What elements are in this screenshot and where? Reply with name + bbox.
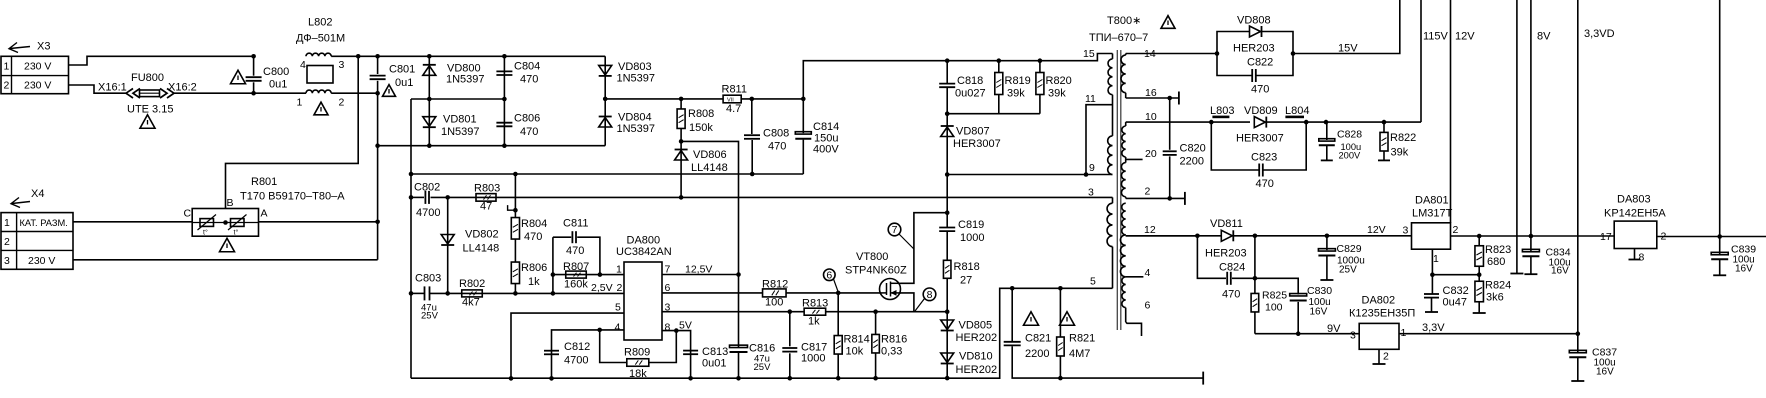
wire X3.2 to fuse bbox=[69, 85, 127, 93]
svg-text:0u01: 0u01 bbox=[702, 358, 726, 370]
svg-text:200V: 200V bbox=[1339, 151, 1362, 161]
capacitor C812 4700 oscillator bbox=[544, 350, 559, 352]
svg-text:C803: C803 bbox=[415, 273, 441, 285]
svg-text:2: 2 bbox=[1145, 186, 1151, 198]
svg-text:680: 680 bbox=[1487, 256, 1505, 268]
svg-text:VD809: VD809 bbox=[1244, 105, 1278, 117]
capacitor C828 100u 200V bbox=[1324, 120, 1329, 125]
svg-text:C820: C820 bbox=[1180, 143, 1206, 155]
svg-text:A: A bbox=[261, 208, 268, 220]
svg-text:470: 470 bbox=[768, 141, 786, 153]
svg-text:C830: C830 bbox=[1307, 285, 1332, 297]
svg-text:ТПИ–670–7: ТПИ–670–7 bbox=[1089, 32, 1148, 44]
wire X4.1 to thermistor C bbox=[73, 221, 192, 223]
wire DA802 pin2 ground bbox=[1378, 349, 1380, 364]
svg-text:3: 3 bbox=[4, 255, 10, 267]
svg-text:R801: R801 bbox=[251, 176, 277, 188]
transformer secondary winding pins 10-20-2 bbox=[1125, 122, 1127, 126]
resistor R821 4M7 bleeder bbox=[1058, 286, 1063, 291]
wire 3,3VD rail vertical bbox=[1577, 0, 1579, 334]
svg-text:X16:1: X16:1 bbox=[98, 82, 127, 94]
capacitor C811 470 parallel loop bbox=[553, 236, 571, 238]
svg-text:UC3842AN: UC3842AN bbox=[616, 246, 672, 258]
svg-text:R814: R814 bbox=[844, 334, 870, 346]
resistor R811 4.7 (fusible, in series) bbox=[723, 95, 741, 103]
wire VCC feed from R808 node to C816 column bbox=[681, 141, 738, 274]
svg-text:39k: 39k bbox=[1391, 147, 1409, 159]
capacitor C816 47u 25V VCC filter bbox=[738, 275, 740, 348]
wire 12V rail top vertical bbox=[1450, 0, 1452, 223]
svg-text:VD808: VD808 bbox=[1237, 15, 1271, 27]
svg-text:47: 47 bbox=[480, 201, 492, 213]
diode VD806 LL4148 aux rectifier bbox=[680, 141, 682, 197]
svg-text:C832: C832 bbox=[1443, 285, 1469, 297]
wire 15V output bbox=[1293, 0, 1400, 54]
svg-text:VD803: VD803 bbox=[618, 61, 652, 73]
label circled 6 gate node bbox=[824, 269, 836, 281]
svg-text:C828: C828 bbox=[1337, 129, 1362, 141]
svg-text:C806: C806 bbox=[514, 113, 540, 125]
capacitor C813 0u01 Vref bypass bbox=[683, 350, 698, 352]
capacitor C839 100u 16V bbox=[1719, 237, 1721, 255]
transformer pin 20 stub bbox=[1126, 158, 1143, 160]
svg-text:C811: C811 bbox=[563, 218, 588, 230]
resistor R804 470 bbox=[514, 174, 516, 218]
svg-text:К1235ЕН35П: К1235ЕН35П bbox=[1349, 308, 1415, 320]
capacitor C803 47u 25V in series (electrolytic) bbox=[424, 286, 426, 300]
diode VD804 1N5397 bbox=[604, 99, 606, 146]
svg-text:100: 100 bbox=[1265, 302, 1283, 314]
svg-text:C813: C813 bbox=[702, 346, 728, 358]
wire clamp node line bbox=[947, 113, 1040, 115]
svg-text:VD804: VD804 bbox=[618, 112, 652, 124]
wire primary ground bottom rail bbox=[411, 288, 1113, 378]
connector X4 table bbox=[1, 213, 73, 270]
svg-text:VD805: VD805 bbox=[959, 320, 993, 332]
resistor R806 1k bbox=[511, 262, 519, 284]
snubber box C823 with HER3007 label bbox=[1209, 120, 1214, 125]
svg-text:470: 470 bbox=[520, 126, 538, 138]
svg-text:470: 470 bbox=[566, 245, 584, 257]
capacitor C806 470 bbox=[503, 99, 505, 146]
resistor R812 100 gate bbox=[763, 289, 787, 297]
svg-text:C821: C821 bbox=[1025, 333, 1051, 345]
svg-text:1: 1 bbox=[4, 61, 10, 73]
capacitor C821 2200 Y-cap between grounds bbox=[1010, 286, 1015, 291]
wire source line left to R816 node bbox=[876, 311, 914, 313]
wire 8V rail vertical with ground tick bbox=[1516, 0, 1518, 274]
svg-text:4: 4 bbox=[1145, 267, 1151, 279]
resistor R825 100 dropper bbox=[1253, 276, 1258, 281]
svg-text:C829: C829 bbox=[1337, 243, 1362, 255]
svg-text:1N5397: 1N5397 bbox=[446, 74, 485, 86]
svg-text:27: 27 bbox=[960, 275, 972, 287]
svg-text:39k: 39k bbox=[1048, 88, 1066, 100]
svg-text:9V: 9V bbox=[1327, 323, 1341, 335]
svg-text:470: 470 bbox=[520, 74, 538, 86]
svg-text:T800∗: T800∗ bbox=[1107, 15, 1141, 27]
svg-text:3: 3 bbox=[1088, 187, 1094, 199]
wire 115V rail to top bbox=[1420, 0, 1422, 122]
capacitor C834 100u 16V on 12V rail bbox=[1530, 0, 1532, 236]
svg-text:VD802: VD802 bbox=[465, 229, 499, 241]
svg-text:230 V: 230 V bbox=[24, 80, 51, 92]
wire DA800 pin8 Vref bbox=[662, 331, 691, 379]
svg-text:2: 2 bbox=[4, 80, 10, 92]
svg-text:16V: 16V bbox=[1551, 266, 1569, 277]
svg-text:DA801: DA801 bbox=[1415, 195, 1449, 207]
svg-text:R806: R806 bbox=[521, 262, 547, 274]
svg-text:HER202: HER202 bbox=[956, 332, 998, 344]
inductor L803 (bead) bbox=[1212, 116, 1229, 119]
svg-text:1000: 1000 bbox=[960, 232, 984, 244]
transformer pin 16 wire to ground tick bbox=[1126, 97, 1179, 99]
svg-text:0,33: 0,33 bbox=[881, 346, 902, 358]
svg-text:VD807: VD807 bbox=[956, 126, 990, 138]
svg-text:FU800: FU800 bbox=[131, 72, 164, 84]
svg-text:HER3007: HER3007 bbox=[1236, 133, 1284, 145]
diode VD800 1N5397 bbox=[428, 56, 430, 99]
svg-text:HER202: HER202 bbox=[956, 364, 998, 376]
svg-text:VD811: VD811 bbox=[1210, 218, 1243, 230]
resistor R819 39k clamp bbox=[998, 61, 1000, 73]
svg-text:15: 15 bbox=[1083, 48, 1095, 60]
svg-text:LL4148: LL4148 bbox=[463, 243, 500, 255]
resistor R818 27 snubber bbox=[943, 260, 951, 278]
svg-text:2: 2 bbox=[339, 97, 345, 109]
svg-text:C801: C801 bbox=[389, 64, 415, 76]
svg-text:X3: X3 bbox=[37, 41, 50, 53]
capacitor C820 2200 secondary common bbox=[1169, 98, 1171, 150]
svg-text:230 V: 230 V bbox=[28, 255, 55, 267]
svg-text:R824: R824 bbox=[1485, 280, 1511, 292]
transformer aux winding pins 3-5 bbox=[1112, 197, 1114, 203]
label circled 8 source node bbox=[923, 288, 936, 301]
svg-text:3: 3 bbox=[339, 59, 345, 71]
svg-text:0u027: 0u027 bbox=[955, 88, 986, 100]
svg-text:1: 1 bbox=[297, 97, 303, 109]
svg-text:R813: R813 bbox=[802, 298, 828, 310]
transformer primary winding pins 15-11-9 bbox=[1112, 54, 1114, 59]
resistor R822 39k bleeder bbox=[1382, 120, 1387, 125]
svg-text:L804: L804 bbox=[1285, 105, 1309, 117]
wire DA800 pin5 ground bbox=[511, 313, 624, 378]
inductor L804 (bead) bbox=[1285, 116, 1304, 119]
capacitor C832 0u47 bbox=[1431, 275, 1433, 294]
transformer pin 12 wire bbox=[1126, 235, 1198, 237]
svg-text:9: 9 bbox=[1089, 162, 1095, 174]
wire hot-ground vertical x=411 bbox=[410, 99, 412, 378]
capacitor C817 1000 CS filter bbox=[788, 309, 793, 314]
svg-text:DA803: DA803 bbox=[1617, 194, 1651, 206]
capacitor C802 4700 in series bbox=[424, 191, 426, 204]
wire DA801 pin1 adjust bbox=[1431, 249, 1433, 275]
svg-text:R803: R803 bbox=[474, 183, 500, 195]
resistor R808 150k startup bbox=[680, 99, 682, 109]
svg-text:VD806: VD806 bbox=[693, 149, 727, 161]
svg-text:470: 470 bbox=[1222, 288, 1240, 300]
warning triangle below C801 label bbox=[383, 85, 396, 97]
svg-text:12: 12 bbox=[1144, 224, 1156, 236]
svg-text:1N5397: 1N5397 bbox=[441, 126, 480, 138]
wire DA800 pin6 gate drive line bbox=[662, 292, 763, 294]
warning triangle below L802 bbox=[314, 102, 328, 115]
svg-text:C814: C814 bbox=[813, 121, 839, 133]
svg-text:10: 10 bbox=[1145, 111, 1157, 123]
svg-text:4700: 4700 bbox=[564, 355, 588, 367]
capacitor C800 0u1 across AC lines bbox=[253, 56, 255, 75]
svg-text:VD801: VD801 bbox=[443, 114, 477, 126]
capacitor C818 0u027 clamp bbox=[946, 61, 948, 84]
warning triangle below fuse bbox=[140, 115, 155, 129]
svg-text:C822: C822 bbox=[1247, 56, 1273, 68]
warning triangle below R801 bbox=[220, 238, 235, 252]
wire far-right rail vertical bbox=[1719, 0, 1721, 237]
svg-text:470: 470 bbox=[1251, 84, 1269, 96]
svg-text:4: 4 bbox=[615, 322, 621, 334]
svg-text:3,3V: 3,3V bbox=[1422, 322, 1445, 334]
resistor R802 4k7 bbox=[462, 290, 483, 297]
svg-text:R819: R819 bbox=[1005, 75, 1031, 87]
svg-text:3: 3 bbox=[1350, 330, 1356, 342]
wire staircase drain to VT800 bbox=[901, 213, 947, 284]
wire DA800 pin4 to C812 bbox=[552, 330, 625, 379]
svg-text:R809: R809 bbox=[624, 347, 650, 359]
svg-text:16: 16 bbox=[1145, 87, 1157, 99]
diode VD802 LL4148 bbox=[445, 195, 450, 200]
diode VD811 HER203 12V rectifier bbox=[1126, 235, 1222, 237]
svg-text:15V: 15V bbox=[1338, 43, 1358, 55]
svg-text:17: 17 bbox=[1600, 231, 1612, 243]
svg-text:R808: R808 bbox=[688, 108, 714, 120]
node VCC-feed junction under R808 bbox=[679, 139, 684, 144]
svg-text:VD810: VD810 bbox=[959, 351, 993, 363]
svg-text:1N5397: 1N5397 bbox=[617, 73, 656, 85]
svg-text:25V: 25V bbox=[754, 362, 772, 373]
svg-text:230 V: 230 V bbox=[24, 61, 51, 73]
svg-text:C812: C812 bbox=[564, 341, 590, 353]
svg-text:2: 2 bbox=[1383, 351, 1389, 363]
svg-text:470: 470 bbox=[1256, 178, 1274, 190]
svg-text:7: 7 bbox=[892, 224, 898, 236]
wire X3.1 to AC line N (top) bbox=[69, 56, 254, 65]
svg-text:C824: C824 bbox=[1219, 262, 1245, 274]
svg-text:B: B bbox=[227, 197, 234, 209]
transformer pin 2 wire to ground tick bbox=[1126, 197, 1185, 199]
warning triangle left of C800 bbox=[231, 70, 246, 84]
capacitor C804 470 bbox=[503, 56, 505, 99]
resistor R803 47 in series bbox=[476, 194, 496, 202]
resistor R820 39k clamp bbox=[1039, 61, 1041, 73]
svg-text:400V: 400V bbox=[813, 144, 839, 156]
label circled 7 drain node bbox=[888, 223, 901, 236]
svg-text:R811: R811 bbox=[722, 84, 747, 96]
svg-text:1: 1 bbox=[1433, 253, 1439, 265]
svg-text:8: 8 bbox=[665, 322, 671, 334]
wire VT800 source to source node bbox=[899, 293, 947, 312]
svg-text:0u47: 0u47 bbox=[1443, 297, 1467, 309]
svg-text:6: 6 bbox=[826, 270, 832, 282]
capacitor C830 100u 16V bbox=[1255, 278, 1298, 294]
svg-text:R823: R823 bbox=[1485, 244, 1511, 256]
transformer pin 6 stub bbox=[1126, 322, 1142, 336]
diode VD809 HER3007 115V rectifier bbox=[1212, 121, 1250, 123]
svg-text:R818: R818 bbox=[954, 261, 980, 273]
resistor R809 18k pin4 to pin8 loop bbox=[600, 330, 627, 363]
svg-text:КАТ. РАЗМ.: КАТ. РАЗМ. bbox=[20, 218, 68, 228]
svg-text:STP4NK60Z: STP4NK60Z bbox=[845, 265, 907, 277]
svg-text:X4: X4 bbox=[31, 188, 44, 200]
svg-text:UTE 3.15: UTE 3.15 bbox=[127, 104, 173, 116]
wire bridge lower rail (AC-L) bbox=[378, 145, 606, 147]
resistor R813 1k CS bbox=[804, 308, 826, 315]
svg-text:5: 5 bbox=[615, 302, 621, 314]
svg-text:R821: R821 bbox=[1069, 333, 1095, 345]
svg-text:T170 B59170–T80–A: T170 B59170–T80–A bbox=[240, 191, 345, 203]
svg-text:1: 1 bbox=[4, 217, 10, 229]
svg-text:115V: 115V bbox=[1423, 31, 1449, 43]
capacitor C829 1000u 25V 12V filter bbox=[1325, 234, 1330, 239]
svg-text:HER3007: HER3007 bbox=[953, 138, 1001, 150]
stub jog near R804 top bbox=[508, 205, 516, 210]
svg-text:HER203: HER203 bbox=[1233, 43, 1275, 55]
svg-text:C819: C819 bbox=[958, 219, 984, 231]
resistor R823 680 divider bbox=[1478, 236, 1480, 246]
wire X4.3 to AC-L vertical bbox=[73, 259, 378, 261]
wire DA800 pin7 VCC to C816 column bbox=[662, 274, 739, 276]
wire L802 pin2 to C801 node (bottom AC) bbox=[331, 92, 377, 94]
wire B-electrode net: top AC line down to thermistor B bbox=[226, 56, 359, 208]
svg-text:1: 1 bbox=[616, 264, 622, 276]
svg-text:HER203: HER203 bbox=[1205, 248, 1247, 260]
svg-text:2: 2 bbox=[4, 236, 10, 248]
wire DA803 pin8 ground bbox=[1634, 249, 1636, 260]
svg-text:100: 100 bbox=[765, 297, 783, 309]
svg-text:3,3VD: 3,3VD bbox=[1584, 28, 1615, 40]
transformer secondary winding pins 12-4-6 bbox=[1125, 202, 1127, 204]
svg-text:t°: t° bbox=[203, 229, 208, 237]
transformer pin 10 wire bbox=[1126, 121, 1212, 123]
diode VD803 1N5397 bbox=[604, 56, 606, 99]
warning triangle above C821 bbox=[1024, 312, 1039, 326]
svg-text:t°: t° bbox=[234, 229, 239, 237]
svg-text:2200: 2200 bbox=[1180, 156, 1204, 168]
wire DA801 pin2 output line bbox=[1451, 235, 1615, 237]
svg-text:DA802: DA802 bbox=[1362, 295, 1396, 307]
wire secondary ground line with end tick bbox=[1060, 377, 1203, 379]
svg-text:5V: 5V bbox=[679, 320, 692, 332]
resistor R807 160k bbox=[566, 271, 587, 278]
svg-text:C823: C823 bbox=[1251, 152, 1277, 164]
svg-text:5: 5 bbox=[1090, 276, 1096, 288]
svg-text:8: 8 bbox=[927, 289, 933, 301]
wire aux winding line pin3 to C802 (y=197.4) bbox=[411, 196, 424, 198]
svg-text:L802: L802 bbox=[308, 17, 332, 29]
svg-text:C818: C818 bbox=[957, 75, 983, 87]
diode VD808 HER203 15V rectifier with C822 snubber box bbox=[1217, 32, 1250, 54]
svg-text:14: 14 bbox=[1144, 48, 1156, 60]
resistor R814 10k gate pulldown bbox=[837, 293, 839, 336]
resistor R816 0,33 source sense bbox=[873, 309, 878, 314]
svg-text:4k7: 4k7 bbox=[462, 297, 480, 309]
svg-text:0u1: 0u1 bbox=[269, 79, 287, 91]
svg-text:2: 2 bbox=[1453, 224, 1459, 236]
svg-text:L803: L803 bbox=[1210, 105, 1234, 117]
svg-text:1k: 1k bbox=[528, 276, 540, 288]
wire C803/R802 line to DA800 pin 2 bbox=[411, 292, 425, 294]
svg-text:6: 6 bbox=[1145, 300, 1151, 312]
svg-text:0u1: 0u1 bbox=[395, 77, 413, 89]
diode VD807 HER3007 clamp bbox=[946, 114, 948, 175]
connector X3 table bbox=[1, 56, 69, 93]
capacitor C808 470 bbox=[751, 99, 753, 134]
transformer pin 14 wire bbox=[1126, 53, 1217, 55]
svg-text:R804: R804 bbox=[521, 218, 547, 230]
wire drain column down to MOSFET staircase bbox=[946, 175, 948, 213]
svg-text:VT800: VT800 bbox=[856, 251, 888, 263]
svg-text:4M7: 4M7 bbox=[1069, 348, 1090, 360]
transformer pin 4 stub bbox=[1126, 276, 1144, 278]
svg-text:C800: C800 bbox=[263, 66, 289, 78]
svg-text:ДФ–501М: ДФ–501М bbox=[296, 33, 345, 45]
svg-text:25V: 25V bbox=[1339, 265, 1357, 276]
wire fuse to L802 pin1 (AC line L) bbox=[174, 92, 306, 94]
warning triangle right of T800 label bbox=[1161, 16, 1175, 29]
transformer secondary winding pins 14-16 bbox=[1125, 54, 1127, 56]
wire AC-L down to lower bridge rail and X4.3 bbox=[377, 93, 379, 260]
wire + HV rail from bridge through R811 bbox=[605, 98, 723, 100]
transformer core bbox=[1116, 50, 1118, 330]
wire drain line from transformer pin 9 bbox=[947, 174, 1112, 176]
transformer pin 11 tap wire bbox=[1086, 105, 1113, 175]
svg-text:12V: 12V bbox=[1455, 31, 1475, 43]
svg-text:470: 470 bbox=[524, 231, 542, 243]
svg-text:KP142EH5A: KP142EH5A bbox=[1604, 208, 1666, 220]
diode VD805 HER202 clamp bbox=[946, 312, 948, 345]
svg-text:10k: 10k bbox=[846, 346, 864, 358]
svg-text:16V: 16V bbox=[1596, 367, 1614, 378]
svg-text:1N5397: 1N5397 bbox=[617, 123, 656, 135]
wire DA802 3,3V output line bbox=[1399, 333, 1578, 335]
diode VD801 1N5397 bbox=[428, 99, 430, 146]
svg-text:4.7: 4.7 bbox=[726, 103, 741, 115]
capacitor C819 1000 snubber bbox=[946, 213, 948, 227]
svg-text:R822: R822 bbox=[1390, 132, 1416, 144]
svg-text:C802: C802 bbox=[414, 182, 440, 194]
svg-text:4: 4 bbox=[300, 59, 306, 71]
svg-text:C808: C808 bbox=[763, 128, 789, 140]
svg-text:C: C bbox=[184, 208, 192, 220]
wire DA800 pin3 current sense line bbox=[662, 311, 804, 313]
svg-text:16V: 16V bbox=[1735, 264, 1753, 275]
wire DA803 pin2 output line to right edge bbox=[1657, 236, 1766, 238]
warning triangle above R821 bbox=[1060, 312, 1075, 326]
wire L802 pin3 to bridge (top AC) bbox=[331, 55, 605, 57]
svg-text:25V: 25V bbox=[421, 311, 439, 322]
wire DA800 pin1 line with R807 bbox=[552, 237, 554, 293]
resistor R824 3k6 divider bbox=[1478, 275, 1480, 282]
svg-text:R807: R807 bbox=[563, 261, 589, 273]
wire hot-ground left rail y=174 bbox=[411, 173, 803, 175]
svg-text:3: 3 bbox=[1403, 225, 1409, 237]
svg-text:1000: 1000 bbox=[801, 353, 825, 365]
svg-text:150k: 150k bbox=[689, 122, 713, 134]
svg-text:2200: 2200 bbox=[1025, 348, 1049, 360]
capacitor C801 0u1 across AC lines bbox=[377, 56, 379, 74]
svg-text:11: 11 bbox=[1085, 93, 1096, 105]
svg-text:R802: R802 bbox=[459, 278, 485, 290]
svg-text:8V: 8V bbox=[1537, 31, 1551, 43]
